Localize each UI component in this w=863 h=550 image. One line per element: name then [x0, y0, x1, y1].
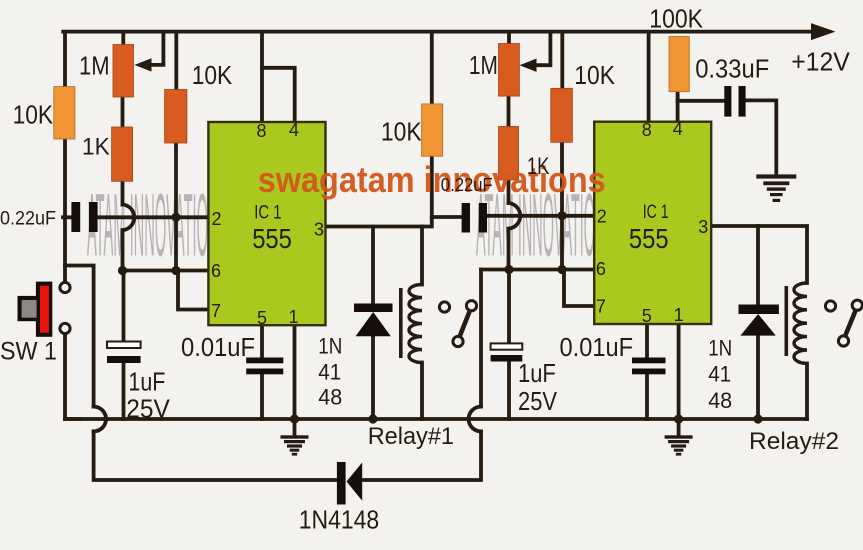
svg-text:1uF: 1uF [518, 358, 556, 388]
wire 100K bottom to pin4 stage2 [676, 91, 680, 122]
wire hop to pin6 line stage2 [507, 229, 511, 270]
wire pin5 to 0.01uF stage2 [645, 324, 649, 358]
wire diode D2 branch top [756, 226, 760, 305]
wire hop to pin6 line stage1 [121, 230, 125, 270]
relay1 contacts (fixed contact, lever tip, pivot, lever) [439, 301, 476, 347]
junction dot ground rail / diode D2 [753, 414, 762, 423]
wire 0.33uF to ground drop [745, 100, 777, 175]
wire stub to 0.22uF left plate [63, 215, 73, 219]
wire left rail upper (above 10K) [63, 33, 67, 88]
wire pin7 loop stage1 [178, 271, 209, 310]
watermark gray "ATAM INNOVATIO" stage 2 [476, 177, 595, 276]
svg-text:10K: 10K [574, 60, 615, 90]
svg-text:48: 48 [318, 385, 342, 410]
wire pin4 branch stage1 [262, 68, 295, 122]
wire SW1 top terminal stub [63, 266, 67, 283]
wire hop over ground rail (right) [469, 407, 481, 432]
pot wiper arrowhead stage2 [520, 59, 537, 72]
wire pin8 drop stage1 [260, 33, 264, 122]
svg-text:6: 6 [211, 261, 221, 281]
wire 1M-1K link stage2 [507, 96, 511, 128]
svg-text:0.22uF: 0.22uF [0, 209, 56, 230]
svg-text:48: 48 [708, 388, 732, 413]
svg-text:IC 1: IC 1 [643, 202, 669, 223]
svg-text:10K: 10K [381, 117, 422, 147]
wire 1M top stage2 [507, 33, 511, 45]
svg-text:555: 555 [629, 223, 669, 254]
svg-text:3: 3 [314, 219, 324, 239]
resistor 1K (stage1, dark orange) [112, 127, 133, 181]
resistor 10K (stage2 mid, light orange) [422, 104, 443, 156]
svg-text:swagatam innovations: swagatam innovations [258, 159, 606, 200]
wire pin3 output stage2 to relay2 coil [711, 226, 807, 283]
junction dot ground rail / pin1 stage2 [674, 414, 683, 423]
potentiometer 1M (stage2, dark orange) [499, 44, 520, 97]
svg-text:41: 41 [318, 360, 341, 385]
ground symbol 0.33uF (right) [756, 174, 796, 202]
svg-text:5: 5 [257, 308, 267, 328]
wire pin7 loop stage2 [564, 270, 594, 307]
resistor 10K (stage1 mid, dark orange) [165, 90, 187, 144]
svg-text:3: 3 [698, 217, 708, 237]
junction dot pin2 line / 10K stage2 [557, 211, 566, 220]
wire 1M-1K link stage1 [121, 97, 125, 128]
wire 10K R3 bottom vertical through pin2 line to pin6 line [174, 143, 178, 271]
svg-text:4: 4 [289, 120, 299, 140]
resistor 10K (stage2 right, dark orange) [551, 88, 573, 142]
capacitor 0.01uF stage1 (two horizontal plates) [246, 358, 283, 364]
svg-text:6: 6 [596, 259, 606, 279]
IC1 pin labels [211, 120, 324, 328]
wire 0.01uF bottom to ground stage2 [645, 374, 649, 419]
capacitor 0.22uF stage2 (two vertical plates) [462, 203, 470, 233]
wire pin6 line stage2 [481, 268, 594, 272]
+12V arrowhead [811, 23, 836, 40]
wire pin1 to ground rail stage1 [293, 325, 297, 419]
svg-text:10K: 10K [192, 60, 233, 90]
svg-text:1: 1 [288, 307, 298, 327]
svg-text:8: 8 [642, 120, 652, 140]
svg-text:0.33uF: 0.33uF [695, 56, 769, 84]
wire diode D1 branch top [371, 227, 375, 305]
wire pin1 ground symbol stub stage2 [677, 419, 681, 436]
wire right vertical up to IC2 trigger line [479, 270, 483, 407]
svg-text:1N4148: 1N4148 [299, 504, 380, 534]
resistor 1K (stage2, dark orange) [499, 127, 519, 181]
wire pin1 ground symbol stub stage1 [293, 419, 297, 436]
wire pin3 output stage1 [326, 217, 432, 227]
junction dot ground rail / pin1 stage1 [290, 414, 299, 423]
wire SW1 bottom terminal to ground rail [65, 334, 80, 419]
wire 10K top stage2 mid [430, 33, 434, 105]
wire 10K bottom stage2 mid [430, 156, 434, 218]
IC2 pin labels [596, 119, 708, 326]
svg-text:Relay#1: Relay#1 [368, 423, 454, 450]
relay2 contacts (fixed contact, lever tip, pivot, lever) [825, 300, 862, 346]
svg-text:1M: 1M [469, 50, 498, 80]
wire pot wiper arrow stage2 [534, 33, 550, 65]
IC1 555 body [208, 122, 325, 325]
junction dot pin2 line / 10K stage1 [171, 213, 180, 222]
capacitor 1uF 25V stage2 (electrolytic) [491, 343, 523, 349]
svg-text:10K: 10K [13, 100, 54, 130]
wire pin5 to 0.01uF stage1 [260, 325, 264, 358]
svg-text:25V: 25V [126, 394, 170, 424]
svg-text:Relay#2: Relay#2 [749, 428, 839, 455]
svg-text:1K: 1K [527, 153, 550, 180]
wire pin6 dot to 1uF top stage1 [122, 271, 126, 343]
wire diode D2 bottom to ground [756, 335, 760, 419]
svg-text:0.22uF: 0.22uF [441, 174, 493, 195]
svg-text:7: 7 [211, 301, 221, 321]
svg-text:2: 2 [211, 209, 221, 229]
capacitor 0.33uF (two vertical plates) [724, 86, 731, 117]
SW1 bottom terminal [60, 323, 70, 333]
junction dot pin6 line / 1K drop stage1 [118, 266, 127, 275]
svg-text:1: 1 [674, 305, 684, 325]
wire 10K top stage2 right [560, 33, 564, 89]
potentiometer 1M (stage1, dark orange) [113, 45, 134, 98]
svg-text:IC 1: IC 1 [254, 203, 281, 224]
wire left vertical to bottom wire [94, 431, 338, 480]
wire SW1 jog right from rail [65, 266, 94, 407]
svg-text:5: 5 [642, 306, 652, 326]
junction dot pin6 line / 10K drop stage1 [171, 266, 180, 275]
wire pin1 to ground rail stage2 [677, 324, 681, 419]
diode 1N4148 D3 (bottom wire, cathode bar left, triangle pointing left) [337, 462, 362, 505]
capacitor 1uF 25V stage1 (electrolytic: outlined top plate, solid bottom plate) [107, 342, 141, 349]
junction dot pin6 line / 1K drop stage2 [504, 265, 513, 274]
junction dot ground rail / diode D1 [368, 414, 377, 423]
svg-text:SW 1: SW 1 [0, 338, 57, 366]
wire 1M R2 top [121, 33, 125, 45]
pot wiper arrowhead stage1 [135, 58, 152, 71]
svg-text:555: 555 [252, 223, 292, 254]
svg-text:+12V: +12V [791, 47, 850, 77]
wire 1K bottom to hop stage2 [507, 180, 511, 204]
svg-text:1N: 1N [708, 336, 732, 361]
switch SW 1 (pushbutton: black frame, red slider, gray plunger) [18, 282, 53, 337]
wire ground rail [65, 417, 807, 421]
wire bottom wire right segment [362, 431, 482, 480]
svg-text:7: 7 [596, 297, 606, 317]
IC2 555 body [594, 122, 711, 324]
wire relay2 coil bottom to ground corner [805, 364, 809, 420]
wire 1uF bottom to ground stage2 [507, 361, 511, 419]
relay2 coil (6 half-ellipse loops + core bar) [794, 283, 807, 363]
svg-text:8: 8 [256, 121, 266, 141]
diode 1N4148 D1 (flyback relay1, cathode bar top, triangle up) [354, 304, 393, 337]
wire relay1 coil top branch [420, 227, 424, 285]
svg-text:0.01uF: 0.01uF [560, 334, 634, 362]
resistor 10K (stage1 left, light orange) [54, 87, 75, 139]
svg-text:0.01uF: 0.01uF [181, 334, 255, 362]
svg-text:1K: 1K [82, 133, 110, 160]
wire pin8 drop stage2 [647, 33, 651, 122]
wire diode D1 bottom to ground [371, 336, 375, 419]
wire left rail lower (10K bottom to SW corner) [63, 138, 67, 266]
wire hop over ground rail (left) [94, 407, 106, 432]
wire hop over pin2 line stage2 [509, 203, 521, 229]
junction dot pin6 line / 10K drop stage2 [557, 265, 566, 274]
wire 0.01uF bottom to ground stage1 [260, 374, 264, 419]
svg-text:1N: 1N [318, 333, 342, 358]
svg-text:2: 2 [597, 207, 607, 227]
svg-text:4: 4 [673, 119, 683, 139]
wire pin6 line stage1 [123, 269, 209, 273]
wire 10K R3 top stage1 [174, 33, 178, 90]
wire pot wiper arrow stage1 [149, 33, 163, 65]
wire pin4 node to 0.33uF [678, 99, 726, 103]
svg-text:1uF: 1uF [128, 367, 165, 397]
diode 1N4148 D2 (flyback relay2, cathode bar top, triangle up) [739, 305, 779, 336]
SW1 top terminal [60, 282, 70, 292]
wire +12V top rail [63, 30, 817, 34]
wire coupling node to 0.22uF stage2 [432, 215, 463, 219]
ground symbol stage1 (under IC1 pin1) [281, 435, 309, 455]
ground symbol stage2 (under IC2 pin1) [665, 435, 693, 455]
relay1 coil (6 half-ellipse loops + core bar) [409, 285, 422, 363]
wire hop over pin2 line stage1 [123, 205, 135, 231]
wire 1uF bottom to ground rail stage1 [122, 363, 126, 420]
resistor 100K (top right, light orange) [669, 37, 689, 92]
wire pin6 dot to 1uF top stage2 [507, 270, 511, 345]
svg-text:41: 41 [708, 362, 731, 387]
watermark gray "ATAM INNOVATIO" stage 1 [87, 177, 208, 276]
capacitor 0.22uF stage1 (two vertical plates) [71, 202, 80, 232]
capacitor 0.01uF stage2 (two horizontal plates) [632, 358, 666, 364]
wire pin2 line stage2 [486, 214, 594, 218]
wire 1K bottom to hop stage1 [121, 181, 125, 205]
wire pin2 line stage1 (0.22uF to IC1 pin2) [97, 215, 209, 219]
svg-text:1M: 1M [79, 50, 110, 80]
wire 10K bottom vertical stage2 right [560, 142, 564, 270]
svg-text:100K: 100K [649, 3, 703, 33]
wire relay1 coil bottom to ground [420, 363, 424, 420]
svg-text:25V: 25V [518, 386, 558, 416]
